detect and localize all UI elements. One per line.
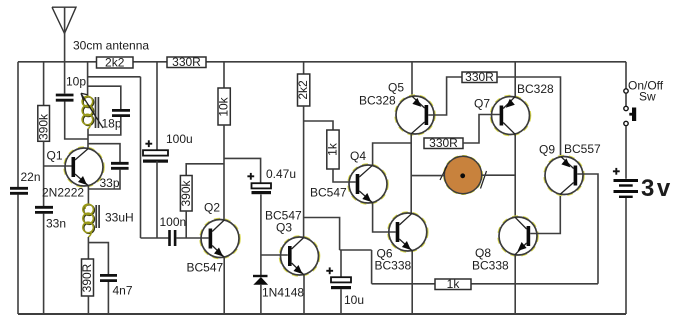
wire: 1k bottom to Q4 base (333, 169, 356, 182)
wire: 2k2 column top (303, 62, 305, 74)
svg-text:Q7: Q7 (474, 97, 490, 111)
wire: Q1 base wire (44, 165, 72, 167)
svg-text:100u: 100u (166, 132, 193, 146)
switch On/Off (624, 62, 664, 179)
svg-text:BC547: BC547 (310, 186, 347, 200)
wire: 100u top feed (156, 62, 158, 150)
wire: Q3 emitter to 0V (303, 275, 305, 314)
wire: 10u node across (340, 249, 372, 251)
wire: 0.47u bottom to Q3 base node (260, 194, 262, 275)
svg-text:2N2222: 2N2222 (42, 186, 84, 200)
wire: 10k column top (223, 62, 225, 88)
capacitor 33p (100, 163, 129, 190)
wire: down leg to 1k feed (371, 250, 373, 284)
svg-text:10k: 10k (217, 96, 231, 116)
transistor Q9 BC557 (539, 142, 601, 196)
wire: left rail lower (22n to 0V) (17, 195, 19, 314)
svg-text:33uH: 33uH (105, 211, 134, 225)
resistor 10k (217, 88, 231, 125)
wire: tank bottom / Q1 collector (87, 129, 89, 148)
wire: Q3 base wire (261, 254, 288, 256)
wire: 0V bottom rail (18, 313, 626, 315)
wire: disc left lead (411, 175, 444, 177)
svg-text:BC547: BC547 (187, 261, 224, 275)
transistor Q4 BC547 (310, 149, 388, 204)
wire: diode anode to 0V (260, 285, 262, 314)
resistor 390k (Q1 bias) (36, 106, 50, 142)
wire: tee to decoupling column (88, 76, 141, 78)
wire: Q8 base to Q9 collector (530, 195, 560, 234)
wire: 10u bottom to 0V (340, 289, 342, 314)
svg-text:390k: 390k (36, 113, 50, 140)
wire: Q3 collector to 10u node (304, 218, 340, 251)
resistor 390k (Q2 bias) (179, 176, 193, 212)
wire: Q6 emitter to 0V (411, 251, 413, 314)
svg-text:10p: 10p (66, 75, 86, 89)
wire: tap to 1k (Q4 base) (304, 121, 333, 130)
svg-text:22n: 22n (21, 170, 41, 184)
piezo speaker disc (440, 156, 487, 195)
wire: tee to 4n7 (88, 243, 108, 274)
svg-text:18p: 18p (102, 117, 122, 131)
svg-text:390k: 390k (179, 179, 193, 206)
wire: 330R to Q9 emitter (497, 77, 561, 157)
wire: Q9 base right and down (577, 174, 598, 284)
wire: collector to 33p top (88, 144, 120, 162)
wire: tank top vertical from rail (87, 62, 89, 97)
wire: 4n7 to 0V (107, 282, 109, 314)
antenna (52, 7, 149, 93)
svg-text:100n: 100n (160, 215, 187, 229)
svg-text:0.47u: 0.47u (266, 167, 296, 181)
wire: 330R mid to Q7 base (463, 115, 500, 144)
wire: Q8 emitter to 0V (514, 255, 516, 314)
resistor 330R (upper right) (462, 70, 497, 84)
wire: +3V top rail (18, 61, 626, 63)
capacitor 10u (electrolytic) (326, 267, 364, 307)
wire: 390k bottom to Q1 base node (43, 141, 45, 206)
wire: 33p bottom to Q1 emitter (88, 170, 120, 189)
wire: 33n to 0V rail (43, 214, 45, 314)
svg-text:2k2: 2k2 (105, 56, 125, 70)
wire: 33uH bottom to 390R (87, 237, 89, 259)
svg-text:Q3: Q3 (276, 221, 292, 235)
wire: disc right lead (482, 174, 516, 176)
resistor 1k (bottom right) (435, 277, 471, 291)
capacitor 10p (56, 75, 87, 101)
svg-text:BC557: BC557 (564, 142, 601, 156)
wire: 10k bottom to Q2 collector (223, 125, 225, 220)
svg-text:Q5: Q5 (388, 81, 404, 95)
svg-text:33n: 33n (46, 217, 66, 231)
svg-text:2k2: 2k2 (296, 80, 310, 100)
wire: Q7 emitter from rail (514, 62, 516, 97)
wire: 18p bottom to tank bottom (88, 117, 121, 135)
wire: 390k bottom to Q2 base (185, 211, 187, 238)
wire: collector node to 390k top (186, 164, 224, 176)
svg-text:Sw: Sw (639, 90, 656, 104)
capacitor 100n (160, 215, 187, 246)
svg-text:Q1: Q1 (47, 149, 63, 163)
inductor 33uH (83, 204, 134, 237)
inductor L1 tank coil (tunable) (81, 93, 103, 129)
capacitor 100u (electrolytic) (143, 132, 193, 163)
resistor 330R (middle) (424, 136, 463, 150)
capacitor 0.47u (electrolytic) (247, 167, 296, 194)
wire: Q2 emitter to 0V (223, 257, 225, 314)
wire: 10p bottom to tank bottom (65, 102, 88, 140)
svg-text:BC338: BC338 (375, 259, 412, 273)
wire: Q4 collector up to 330R mid (373, 143, 411, 166)
svg-text:1k: 1k (447, 277, 461, 291)
svg-text:330R: 330R (429, 136, 458, 150)
resistor 2k2 (Q3 collector load) (296, 74, 310, 106)
wire: 2k2 bottom to Q3 collector (303, 106, 305, 238)
svg-text:330R: 330R (465, 70, 494, 84)
diode 1N4148 (253, 276, 304, 300)
svg-text:33p: 33p (100, 176, 120, 190)
transistor Q8 BC338 (mirrored) (472, 216, 538, 273)
wire: to 1k (bottom right) (372, 283, 435, 285)
svg-text:Q9: Q9 (539, 143, 555, 157)
wire: left rail (22n column) (17, 62, 19, 187)
wire: Q9 base to 1k (471, 283, 598, 285)
transistor Q7 BC328 (474, 82, 554, 136)
resistor 2k2 (top, oscillator feed) (97, 56, 134, 70)
wire: tank top to 18p (88, 86, 121, 109)
wire: decoupling bottom corner (141, 237, 169, 239)
wire: Q5 emitter from rail (411, 62, 413, 96)
battery 3v (613, 168, 673, 202)
transistor Q2 BC547 (187, 201, 241, 275)
resistor 390R (80, 259, 94, 296)
wire: decoupling column (left of 2k2) (140, 77, 142, 238)
wire: 100n to Q2 base (176, 237, 208, 239)
wire: Q5 collector down to Q6 collector (410, 134, 412, 213)
capacitor 22n (10, 170, 41, 193)
wire: 100u negative down (156, 161, 158, 238)
capacitor 33n (35, 207, 66, 230)
transistor Q5 BC328 (359, 81, 435, 136)
resistor 1k (Q4 base) (326, 130, 340, 169)
svg-text:10u: 10u (344, 293, 364, 307)
svg-text:BC328: BC328 (517, 82, 554, 96)
svg-text:Q4: Q4 (350, 149, 366, 163)
transistor Q3 BC547 (265, 209, 320, 277)
capacitor 18p (102, 110, 131, 130)
svg-text:1k: 1k (326, 142, 340, 156)
svg-text:330R: 330R (172, 55, 201, 69)
wire: Q5 base to 330R (upper) (428, 77, 462, 115)
svg-text:3v: 3v (641, 175, 673, 202)
wire: 10u top drop (340, 250, 342, 277)
svg-text:1N4148: 1N4148 (262, 286, 304, 300)
capacitor 4n7 (100, 275, 133, 297)
wire: 390k bias column top (43, 62, 45, 106)
wire: Q4 emitter to Q6 base (373, 203, 396, 232)
wire: Q1 emitter down to 33uH (87, 186, 89, 205)
transistor Q1 2N2222 (42, 147, 104, 200)
svg-text:30cm antenna: 30cm antenna (73, 39, 149, 53)
svg-text:Q2: Q2 (204, 201, 220, 215)
wire: collector node to 0.47u (224, 158, 261, 183)
wire: Q7 collector down to Q8 (514, 135, 516, 218)
svg-text:BC328: BC328 (359, 94, 396, 108)
wire: 390R to 0V (87, 296, 89, 314)
svg-text:390R: 390R (80, 263, 94, 292)
wire: battery negative to 0V (625, 198, 627, 314)
transistor Q6 BC338 (375, 212, 428, 273)
svg-text:BC338: BC338 (472, 259, 509, 273)
resistor 330R (top rail) (167, 55, 206, 69)
svg-text:4n7: 4n7 (113, 284, 133, 298)
